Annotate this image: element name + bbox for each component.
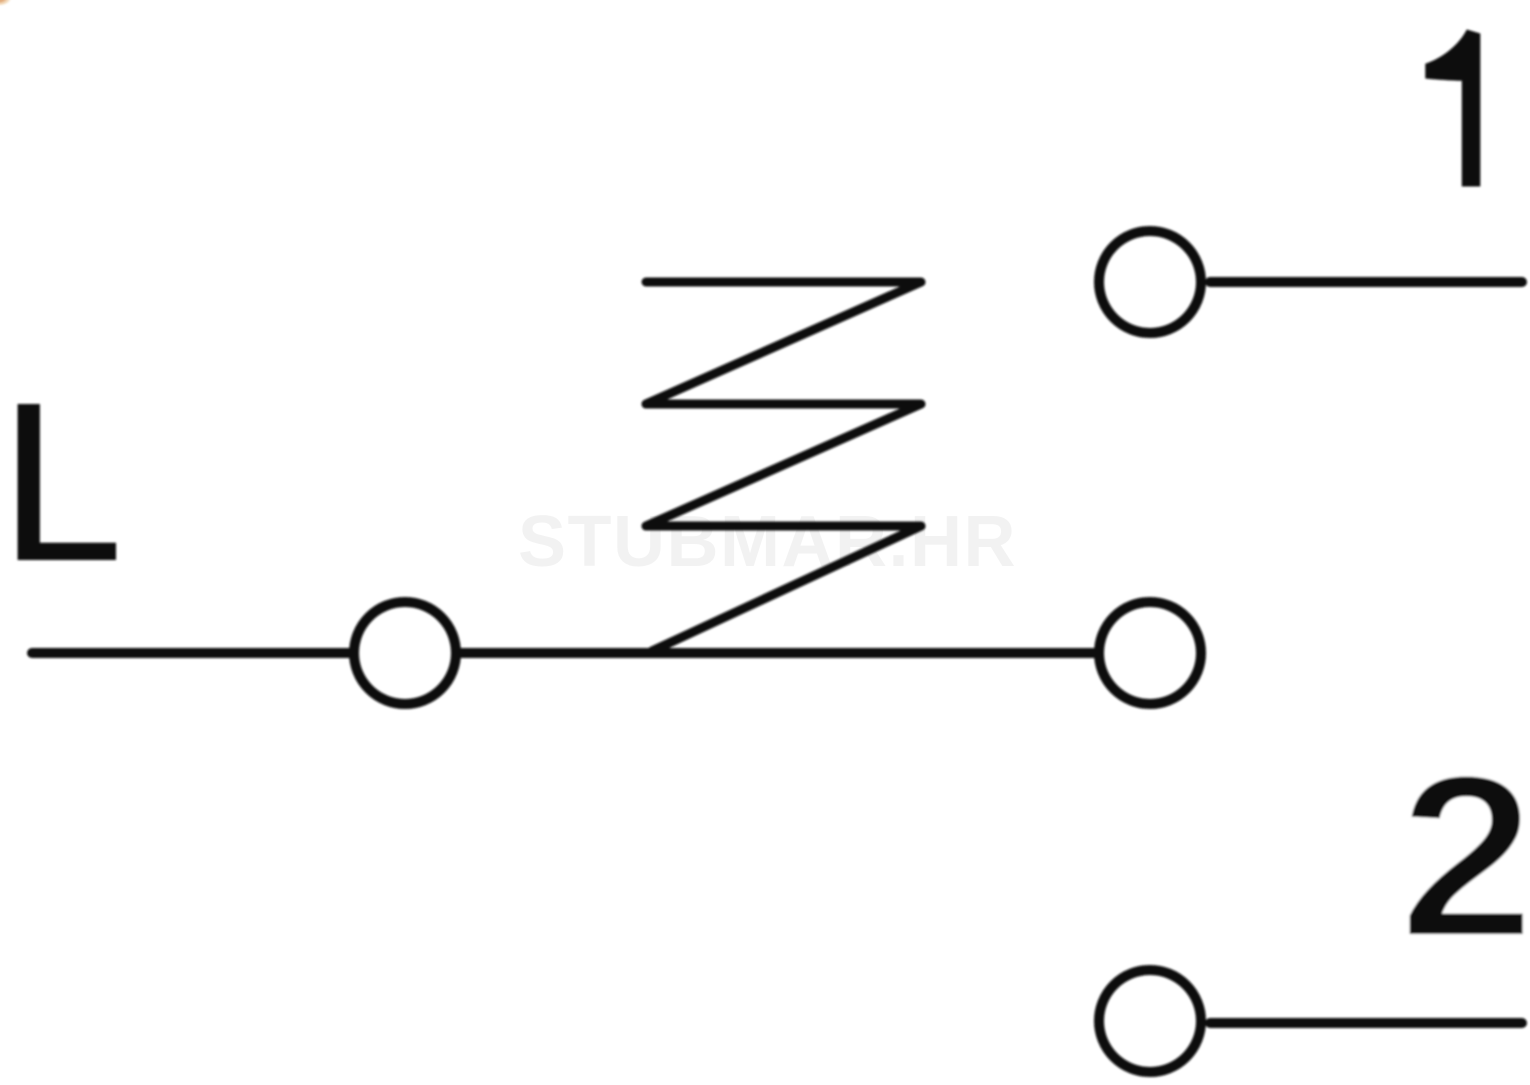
terminal circle 2 xyxy=(1099,970,1201,1072)
spring zigzag xyxy=(646,282,921,651)
terminal circle 1 xyxy=(1099,231,1201,333)
svg-text:STUBMAR.HR: STUBMAR.HR xyxy=(518,502,1017,582)
orange smudge top-left corner xyxy=(0,0,13,7)
wire terminal 2 xyxy=(1210,1018,1522,1028)
svg-text:2: 2 xyxy=(1398,726,1530,987)
wire common xyxy=(459,648,1096,658)
terminal circle L xyxy=(354,602,456,704)
terminal circle common xyxy=(1099,602,1201,704)
pin label 1 xyxy=(1425,30,1480,187)
node label L xyxy=(18,404,116,560)
wire L input xyxy=(32,648,351,658)
wire terminal 1 xyxy=(1210,277,1522,287)
